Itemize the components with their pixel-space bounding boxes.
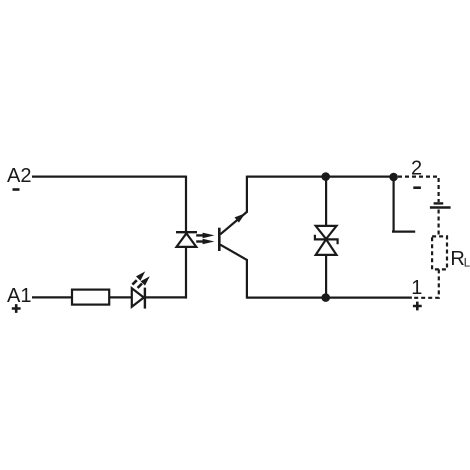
svg-text:1: 1 [411, 277, 422, 299]
wire A1 to resistor [32, 296, 72, 298]
phototransistor Q1 emitter vertical [246, 259, 248, 299]
svg-text:A2: A2 [7, 165, 31, 187]
node junction dot bottom TVS [321, 293, 330, 302]
svg-text:L: L [464, 258, 470, 270]
optical coupling arrow 1 [196, 233, 214, 239]
wire LED to opto vertical [146, 296, 187, 298]
wire output top rail [247, 176, 394, 178]
plus sign (A1 polarity) [12, 304, 21, 313]
plus sign (terminal 1 polarity) [413, 302, 422, 311]
wire input vertical upper [185, 176, 187, 232]
wire resistor to LED [109, 296, 132, 298]
node junction dot terminal 2 [389, 173, 398, 182]
terminal label 2 [411, 158, 422, 180]
minus sign (A2 polarity) [13, 188, 20, 191]
TVS suppressor diode lower triangle [316, 239, 337, 255]
terminal label A2 [7, 165, 31, 187]
battery cell short plate [434, 202, 444, 204]
LED D2 indicator triangle [132, 288, 144, 307]
wire input vertical lower [185, 247, 187, 299]
LED D2 indicator cathode bar [144, 288, 146, 309]
dashed wire load to terminal 1 [412, 269, 439, 297]
terminal 2 bracket horizontal [392, 231, 415, 233]
wire output bottom rail [247, 297, 412, 299]
LED D1 optocoupler emitter triangle [177, 233, 197, 247]
svg-text:A1: A1 [7, 285, 31, 307]
load resistor RL label [450, 248, 470, 270]
load resistor RL dashed box [432, 236, 447, 269]
phototransistor Q1 emitter diagonal [220, 245, 247, 260]
resistor R1 [72, 290, 109, 305]
LED D1 optocoupler emitter cathode bar [176, 231, 197, 233]
LED D2 light emission arrow 1 [132, 271, 145, 284]
wire A2 horizontal [32, 176, 186, 178]
dashed wire battery to load [438, 210, 440, 237]
phototransistor Q1 collector vertical [246, 176, 248, 213]
optical coupling arrow 2 [196, 239, 214, 245]
terminal 2 bracket vertical [393, 177, 395, 232]
terminal label 1 [411, 277, 422, 299]
dashed wire terminal 2 to battery [398, 177, 439, 202]
phototransistor Q1 collector diagonal with arrow [220, 212, 247, 234]
terminal label A1 [7, 285, 31, 307]
TVS suppressor diode upper triangle [316, 226, 337, 239]
wire TVS bottom lead [325, 255, 327, 298]
LED D2 light emission arrow 2 [138, 276, 150, 288]
svg-text:R: R [450, 248, 464, 270]
minus sign (terminal 2 polarity) [413, 186, 421, 189]
TVS suppressor diode middle bar with hooks [315, 235, 338, 245]
phototransistor Q1 base bar [218, 228, 221, 251]
wire TVS top lead [325, 177, 327, 226]
battery cell long plate [430, 206, 451, 208]
node junction dot top TVS [321, 172, 330, 181]
